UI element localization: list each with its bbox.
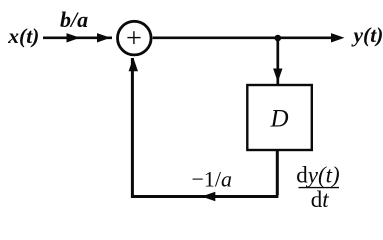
wire feedback left vertical up xyxy=(131,58,134,198)
block D box xyxy=(247,85,311,150)
wire junction down to D box xyxy=(276,38,279,85)
svg-text:b/a: b/a xyxy=(60,7,88,32)
svg-text:dt: dt xyxy=(311,187,330,211)
arrowhead into summer xyxy=(97,33,111,42)
wire D box down xyxy=(276,149,279,195)
node junction dot xyxy=(275,35,282,42)
svg-text:x(t): x(t) xyxy=(7,24,39,48)
arrowhead into D box xyxy=(273,69,282,83)
arrowhead into summer bottom xyxy=(129,58,138,72)
op summing junction circle xyxy=(118,21,152,55)
arrowhead feedback left xyxy=(202,192,216,202)
svg-text:dy(t): dy(t) xyxy=(296,162,339,187)
svg-text:−1/a: −1/a xyxy=(192,166,233,191)
wire input horizontal xyxy=(43,36,112,39)
arrowhead output xyxy=(331,33,345,42)
svg-text:y(t): y(t) xyxy=(351,23,383,47)
svg-text:D: D xyxy=(270,106,289,133)
plus sign in summer xyxy=(127,31,140,44)
arrowhead mid input xyxy=(67,33,81,42)
fraction bar xyxy=(299,187,340,189)
wire feedback bottom horizontal xyxy=(131,195,278,198)
wire summer to output xyxy=(153,36,332,39)
